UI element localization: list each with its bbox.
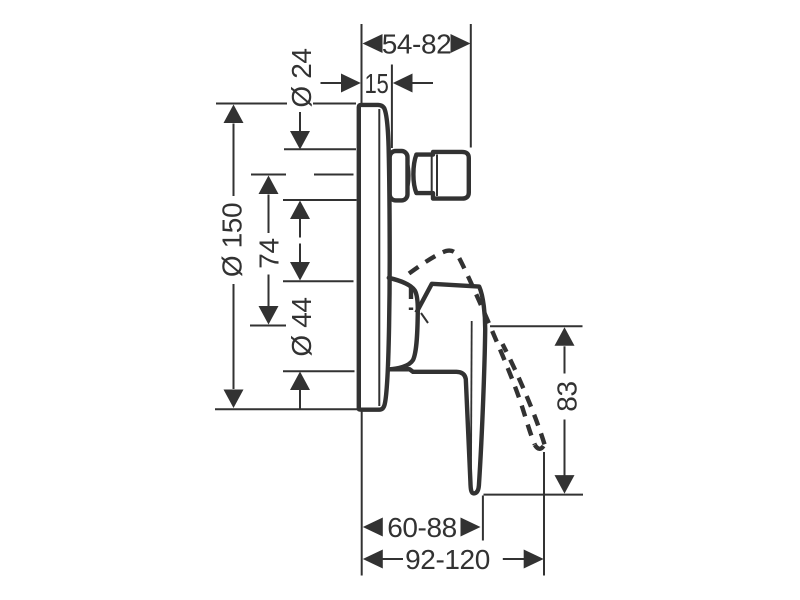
svg-text:60-88: 60-88: [387, 512, 457, 543]
extension line: dashed handle tip (92-120 right): [543, 452, 545, 576]
dimension 15 left arrow with tail: [321, 82, 343, 84]
extension line: grip tip bottom (83 bottom) y=494.6: [484, 494, 584, 496]
svg-text:15: 15: [365, 68, 389, 99]
dimension 15 right arrow with tail: [393, 74, 413, 93]
dimension 54-82 right arrow: [451, 34, 471, 53]
dimension Ø44 upper arrow (points down): [299, 244, 301, 263]
dimension 92-120 left arrow with tail: [363, 550, 383, 569]
extension line: hub front (right line of 15): [391, 65, 393, 149]
svg-text:Ø 24: Ø 24: [286, 48, 317, 107]
extension line at plate bottom y=409.3: [215, 408, 358, 410]
plate inner rim line: [378, 109, 380, 406]
svg-text:92-120: 92-120: [405, 544, 490, 575]
extension line: grip tip (60-88 right): [482, 496, 484, 541]
extension line at handle sleeve bottom y=371.3: [283, 370, 355, 372]
dimension 54-82 left arrow: [363, 34, 383, 53]
svg-text:Ø 150: Ø 150: [217, 203, 248, 277]
extension line: wall plane top (left line of 54-82 / 15): [361, 24, 363, 103]
extension line at knob top y=149.2: [284, 148, 356, 150]
shut-off knob body (stepped cylinder): [413, 152, 468, 199]
dashed hub rear edge (alternate position): [409, 288, 413, 311]
lever handle body (grip + hub, solid position): [389, 284, 486, 494]
knob bead (torus at hub front): [397, 157, 409, 194]
extension line at knob centerline y=174.5 (left segment): [251, 174, 286, 176]
dimension 92-120 right arrow with tail: [503, 558, 525, 560]
extension line: dashed handle top (83 top) y=326.3: [490, 325, 583, 327]
extension line at handle pivot centerline y=325.5: [250, 325, 286, 327]
extension line: knob front face (right line of 54-82): [470, 24, 472, 148]
knob face line (thin): [436, 155, 438, 197]
grip inner highlight line: [470, 321, 473, 469]
svg-text:Ø 44: Ø 44: [286, 297, 317, 356]
dimension 60-88 left arrow: [363, 518, 383, 537]
knob step line (thin): [431, 156, 433, 192]
extension line at handle sleeve top y=281.2: [283, 280, 354, 282]
dimension Ø150 bottom arrow (points down): [233, 284, 235, 389]
handle sleeve dome (rear profile): [389, 278, 418, 370]
dimension 74 top arrow (points up): [259, 176, 279, 195]
dimension Ø44 lower arrow (points up): [290, 372, 310, 391]
svg-text:83: 83: [552, 381, 583, 411]
dimension Ø24 upper arrow (points down): [299, 112, 301, 131]
dimension Ø24 lower arrow (points up): [290, 201, 310, 220]
dimension 83 bottom arrow (points down): [564, 420, 566, 477]
lever neck crease (thin detail): [421, 313, 428, 323]
dashed lever rear edge (alternate position): [409, 251, 535, 445]
dashed lever tip arc (alternate position): [535, 444, 545, 448]
dimension 74 bottom arrow (points down): [268, 275, 270, 307]
svg-text:54-82: 54-82: [382, 29, 452, 60]
shut-off knob hub (at plate): [390, 151, 408, 200]
extension line at knob bottom y=200: [283, 199, 357, 201]
dashed lever front edge (alternate position): [503, 344, 545, 444]
extension line at plate top y=103.5 (left of label gap): [216, 103, 287, 105]
dimension 60-88 right arrow: [461, 518, 481, 537]
extension line: wall plane bottom (left of 60-88/92-120): [361, 411, 363, 576]
extension line at plate top y=103.5 (right of label gap): [313, 103, 356, 105]
svg-text:74: 74: [254, 238, 285, 268]
extension line at knob centerline y=174.5 (right segment): [314, 174, 354, 176]
dimension 83 top arrow (points up): [555, 327, 575, 346]
escutcheon plate Ø150 (side profile, filled): [359, 105, 390, 410]
dimension Ø150 top arrow (points up): [224, 105, 244, 124]
